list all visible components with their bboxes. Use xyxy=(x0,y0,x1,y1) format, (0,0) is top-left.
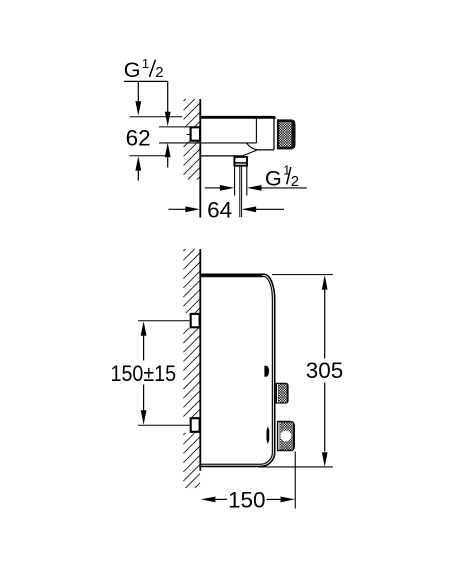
shower button (D shape) xyxy=(264,366,269,377)
product outline inner xyxy=(200,277,272,465)
extension line wheel front xyxy=(294,452,296,509)
cap bottom xyxy=(258,149,275,151)
svg-text:1: 1 xyxy=(142,56,149,71)
extension line body top (L1) xyxy=(130,116,183,118)
inlet union block in wall xyxy=(191,127,200,140)
outlet pipe outer xyxy=(234,166,236,195)
wall face line (upper view) xyxy=(199,99,201,218)
paddle lever xyxy=(267,426,270,444)
extension line union 1 xyxy=(138,320,190,322)
wall (lower view, hatched) xyxy=(183,249,200,488)
under-cap curve xyxy=(247,143,258,150)
svg-text:G: G xyxy=(265,166,282,190)
extension line bulge bottom (L4) xyxy=(130,155,167,157)
mixer body top edge (thick) xyxy=(199,116,275,119)
union square 1 xyxy=(191,314,200,327)
upper knurled wheel (side) xyxy=(276,383,289,404)
bulge chamfer xyxy=(243,150,257,156)
extension line inlet top (L2) xyxy=(159,126,190,128)
extension line body bottom (L3) + body bottom edge xyxy=(159,142,256,144)
union square 2 xyxy=(191,418,200,432)
inlet bottom up arrow xyxy=(165,143,171,158)
body front divider xyxy=(255,119,257,143)
dim 62 bottom up arrow xyxy=(135,156,141,171)
leader + dim 62 top arrow xyxy=(137,81,139,102)
wall (upper view, hatched) xyxy=(184,99,200,180)
dim G 1/2 outlet arrows xyxy=(205,187,221,189)
cap front edge xyxy=(273,119,275,150)
leader to inlet top (down arrow) xyxy=(167,81,169,112)
dim 64 xyxy=(169,208,187,210)
svg-text:64: 64 xyxy=(207,197,232,222)
knurled knob xyxy=(277,119,296,149)
svg-text:G: G xyxy=(124,58,141,82)
wall face line (lower view) xyxy=(199,249,201,471)
svg-text:2: 2 xyxy=(155,64,163,81)
product top edge filler xyxy=(200,274,262,277)
svg-text:150: 150 xyxy=(228,487,266,512)
dim 150 xyxy=(201,497,216,503)
inlet stub tick xyxy=(187,134,191,136)
dim 305 xyxy=(272,274,333,276)
smartcontrol wheel with circle xyxy=(277,421,295,452)
channel gaps for unions xyxy=(182,313,190,328)
svg-text:2: 2 xyxy=(291,173,299,190)
product outline outer xyxy=(200,274,275,466)
svg-text:305: 305 xyxy=(306,358,344,383)
svg-text:150±15: 150±15 xyxy=(111,362,177,386)
bulge bottom xyxy=(199,155,242,157)
outlet flange xyxy=(234,157,247,166)
extension line union 2 xyxy=(138,424,190,426)
supply channel gap in wall xyxy=(182,128,190,142)
label G 1/2 (top inlet) xyxy=(124,56,168,82)
label G 1/2 (outlet) xyxy=(265,164,299,191)
outlet pipe inner stub xyxy=(239,166,241,217)
svg-text:62: 62 xyxy=(126,126,151,151)
dim 150±15 xyxy=(141,321,147,336)
